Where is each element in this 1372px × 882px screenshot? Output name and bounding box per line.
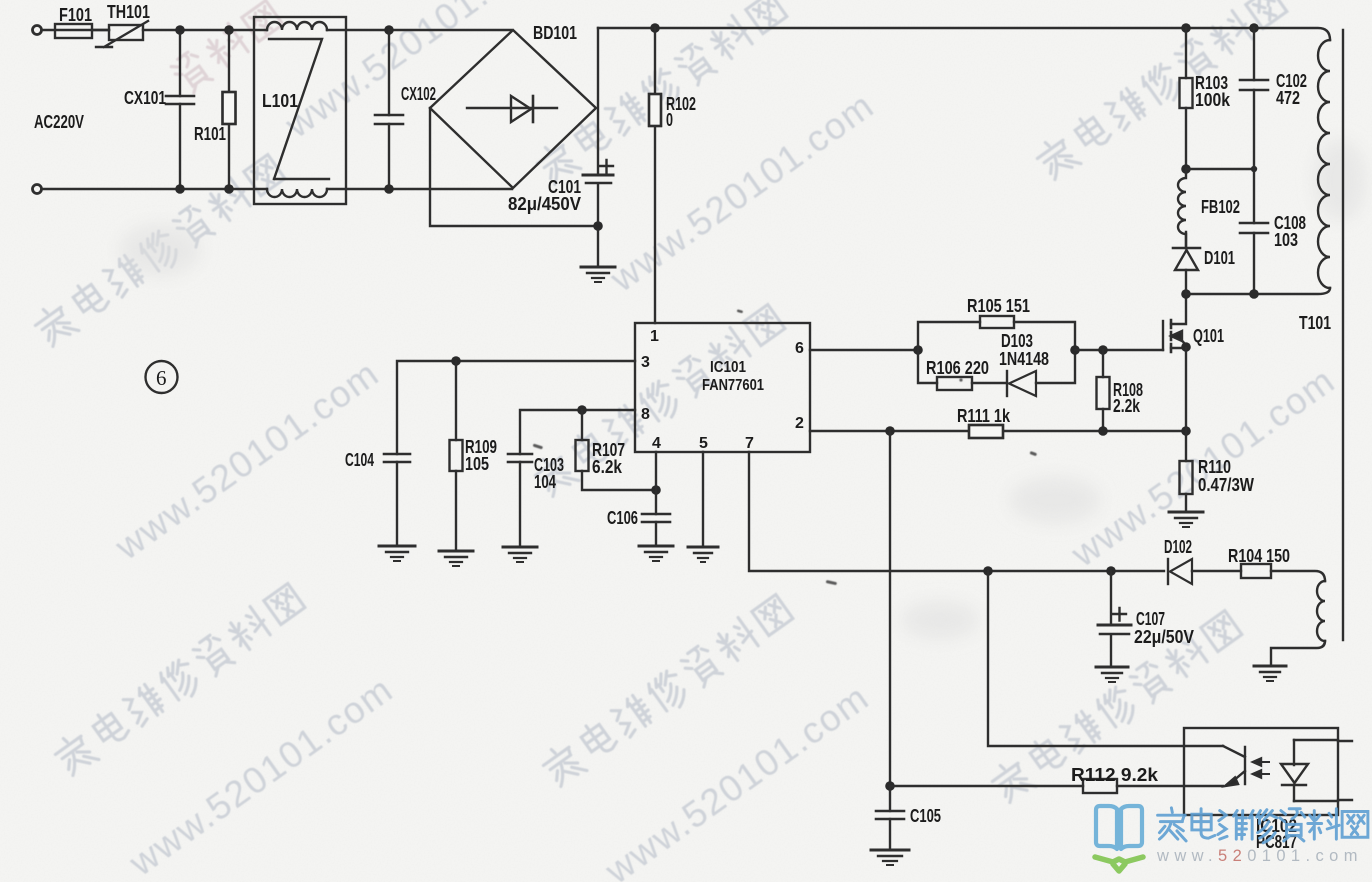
ground under C106 — [639, 546, 673, 561]
svg-text:T101: T101 — [1299, 313, 1331, 333]
node junction — [224, 25, 234, 35]
svg-text:6: 6 — [795, 340, 804, 357]
diode D101 — [1173, 232, 1235, 294]
wire — [1186, 168, 1254, 170]
svg-text:CX102: CX102 — [401, 84, 436, 104]
capacitor CX102 — [375, 30, 436, 189]
wire R105 network frame — [918, 322, 1075, 383]
svg-text:2.2k: 2.2k — [1113, 396, 1141, 416]
resistor R101 — [194, 30, 236, 189]
node junction — [1251, 166, 1257, 172]
svg-text:D102: D102 — [1164, 537, 1192, 557]
resistor R108 — [1097, 350, 1144, 431]
node junction drain — [1181, 289, 1191, 299]
node junction — [593, 221, 603, 231]
ground under R109 — [439, 551, 473, 566]
svg-text:5: 5 — [699, 435, 708, 452]
node junction — [1106, 566, 1116, 576]
svg-text:C107: C107 — [1136, 609, 1165, 629]
svg-text:FAN77601: FAN77601 — [702, 377, 764, 394]
svg-text:CX101: CX101 — [124, 88, 166, 108]
diode D102 — [1164, 537, 1241, 584]
svg-text:D101: D101 — [1204, 248, 1235, 268]
transformer T101 core — [1342, 30, 1344, 640]
capacitor C106 — [607, 508, 670, 546]
wire — [92, 29, 109, 31]
node junction — [1098, 426, 1108, 436]
svg-text:IC101: IC101 — [710, 359, 746, 376]
svg-text:103: 103 — [1274, 230, 1298, 250]
capacitor C105 — [876, 786, 941, 850]
svg-text:0.47/3W: 0.47/3W — [1198, 475, 1254, 495]
thermistor TH101 — [96, 2, 150, 47]
resistor R104 — [1228, 546, 1290, 578]
svg-text:472: 472 — [1276, 88, 1300, 108]
node junction R102 top — [650, 23, 660, 33]
node junction — [384, 184, 394, 194]
wire — [327, 29, 511, 31]
svg-text:R104 150: R104 150 — [1228, 546, 1290, 566]
svg-text:82μ/450V: 82μ/450V — [508, 194, 581, 214]
ground under C104 — [379, 546, 415, 561]
svg-text:AC220V: AC220V — [34, 112, 84, 132]
wire R112 rail — [890, 785, 1223, 787]
wire — [327, 188, 512, 190]
svg-text:R101: R101 — [194, 124, 226, 144]
node junction — [175, 25, 185, 35]
wire DC+ top rail — [598, 28, 1330, 40]
wire bottom AC line — [42, 188, 268, 190]
svg-text:3: 3 — [641, 354, 650, 371]
bridge rectifier BD101 — [430, 23, 596, 188]
capacitor C104 — [345, 450, 410, 546]
node junction — [175, 184, 185, 194]
node AC input terminal L — [33, 26, 42, 35]
wire source to R111 rail — [1185, 348, 1187, 431]
node junction — [1098, 345, 1108, 355]
svg-text:F101: F101 — [59, 5, 92, 25]
fuse F101 — [55, 5, 92, 38]
node junction — [577, 405, 587, 415]
node junction — [885, 426, 895, 436]
ground under C103 — [503, 547, 537, 562]
node junction — [1181, 426, 1191, 436]
svg-text:www.520101.com: www.520101.com — [1156, 847, 1363, 865]
svg-text:104: 104 — [534, 472, 556, 492]
resistor R110 — [1180, 431, 1255, 512]
capacitor C107 electrolytic — [1098, 571, 1194, 667]
resistor R106 — [926, 358, 989, 390]
node junction Q101 source — [1181, 342, 1191, 352]
svg-text:7: 7 — [745, 435, 754, 452]
svg-text:1: 1 — [650, 328, 659, 345]
svg-text:6: 6 — [156, 366, 167, 390]
node AC input terminal N — [33, 185, 42, 194]
resistor R105 — [967, 296, 1030, 328]
svg-text:Q101: Q101 — [1193, 326, 1224, 346]
node junction — [224, 184, 234, 194]
wire pin2 rail down to feedback — [889, 431, 891, 786]
capacitor C102 — [1240, 28, 1307, 169]
resistor R112 — [1071, 765, 1159, 793]
wire top AC line — [143, 29, 267, 31]
resistor R102 — [649, 28, 696, 323]
wire drain rail — [1186, 288, 1330, 294]
wire gate — [1075, 349, 1163, 351]
svg-text:2: 2 — [795, 415, 804, 432]
node junction — [451, 356, 461, 366]
wire opto collector feed — [988, 571, 1223, 746]
ground secondary — [1254, 666, 1286, 681]
svg-text:FB102: FB102 — [1201, 197, 1240, 217]
svg-text:TH101: TH101 — [107, 2, 150, 22]
ground under C105 — [871, 850, 909, 865]
optocoupler IC102 PC817 — [1184, 728, 1352, 852]
svg-text:105: 105 — [465, 454, 489, 474]
node junction — [913, 345, 923, 355]
logo 520101 site mark — [1095, 806, 1368, 871]
node junction C102 top — [1249, 23, 1259, 33]
wire pin 7 — [749, 452, 1164, 571]
capacitor C108 — [1240, 169, 1306, 294]
node junction — [1249, 289, 1259, 299]
resistor R111 — [957, 406, 1011, 438]
transistor Q101 MOSFET — [1163, 299, 1224, 352]
inductor FB102 — [1178, 169, 1240, 248]
wire pin 6 — [810, 349, 918, 351]
ground pin 5 — [688, 547, 718, 562]
wire secondary return — [1271, 641, 1325, 666]
wire — [42, 29, 110, 31]
svg-text:L101: L101 — [262, 91, 298, 111]
transformer T101 secondary winding — [1317, 581, 1325, 641]
node junction — [885, 781, 895, 791]
svg-text:R110: R110 — [1198, 457, 1231, 477]
svg-text:R105 151: R105 151 — [967, 296, 1030, 316]
svg-text:C106: C106 — [607, 508, 638, 528]
inductor L101 common-mode choke — [254, 17, 346, 204]
resistor R107 — [576, 410, 652, 490]
resistor R103 — [1180, 28, 1231, 165]
svg-text:BD101: BD101 — [533, 23, 577, 43]
wire pin 3 — [397, 361, 635, 454]
capacitor CX101 — [124, 35, 194, 186]
svg-text:R112 9.2k: R112 9.2k — [1071, 765, 1159, 785]
capacitor C103 — [508, 454, 564, 547]
svg-text:1N4148: 1N4148 — [999, 349, 1049, 369]
wire pin 4 — [655, 452, 657, 514]
wire pin 2 / R111 rail — [810, 430, 1186, 432]
svg-text:22μ/50V: 22μ/50V — [1134, 627, 1194, 647]
wire pin 8 — [520, 410, 635, 454]
node junction — [1070, 345, 1080, 355]
svg-text:100k: 100k — [1195, 90, 1231, 110]
diode D103 1N4148 — [999, 331, 1049, 396]
wire — [597, 230, 599, 266]
ground under C107 — [1096, 667, 1128, 682]
svg-text:R106 220: R106 220 — [926, 358, 989, 378]
node junction R103 top — [1181, 23, 1191, 33]
svg-text:0: 0 — [666, 110, 673, 130]
wire DC minus: bridge left corner down to C101 bottom rail — [430, 108, 593, 226]
wire pin 5 — [702, 452, 704, 547]
svg-text:C104: C104 — [345, 450, 374, 470]
svg-text:4: 4 — [652, 435, 661, 452]
svg-text:C105: C105 — [910, 806, 941, 826]
transformer T101 primary winding — [1299, 40, 1331, 333]
node schematic number 6 — [146, 361, 178, 393]
svg-text:8: 8 — [641, 406, 650, 423]
ground under C101 — [581, 267, 615, 282]
resistor R109 — [450, 361, 498, 551]
node junction — [384, 25, 394, 35]
svg-text:6.2k: 6.2k — [592, 457, 623, 477]
node junction — [983, 566, 993, 576]
capacitor C101 electrolytic — [508, 160, 613, 222]
text AC220V — [34, 112, 84, 132]
ground under R110 — [1169, 512, 1203, 527]
wire DC plus riser — [597, 28, 599, 174]
node junction — [1181, 164, 1191, 174]
op-amp U IC101 FAN77601 — [635, 323, 810, 452]
node junction — [651, 485, 661, 495]
svg-text:D103: D103 — [1001, 331, 1033, 351]
wire to secondary — [1271, 571, 1325, 581]
svg-text:R111 1k: R111 1k — [957, 406, 1011, 426]
